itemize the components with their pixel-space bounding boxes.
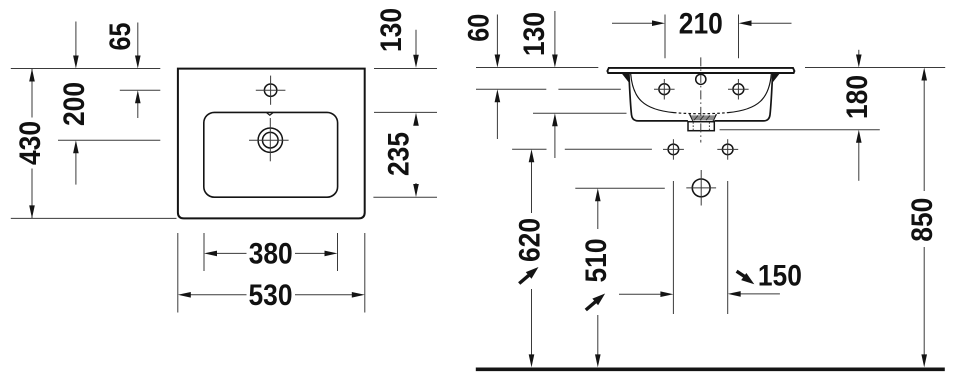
dimension 380 line and arrows xyxy=(217,252,247,254)
dimension 130 plan arrows xyxy=(415,30,417,56)
dimension 850 line xyxy=(923,80,925,191)
front view: right fixing hole crosshair xyxy=(717,148,738,150)
extension line: drain outlet level xyxy=(575,187,665,189)
extension line: rim left for 530 xyxy=(177,233,179,313)
extension line: left side hole vertical for 210 xyxy=(664,15,666,59)
dimension 180 line xyxy=(858,50,860,56)
svg-text:65: 65 xyxy=(104,23,137,51)
dimension 510 line xyxy=(597,201,599,229)
front view: drain flange hatch xyxy=(691,115,715,120)
front view: right side hole crosshair xyxy=(728,88,749,90)
front view: left side hole crosshair xyxy=(654,88,675,90)
plan view: washbasin outer rim rectangle xyxy=(178,69,365,219)
extension line: side holes level, left b xyxy=(558,88,620,90)
dimension 620 line xyxy=(531,162,533,213)
front view: basin interior curve left xyxy=(631,74,674,113)
svg-text:200: 200 xyxy=(58,82,91,126)
dimension 620 pointer arrow xyxy=(519,275,529,283)
dimension 60 arrows xyxy=(496,15,498,57)
front view: basin interior curve hidden middle (dashed) xyxy=(674,113,728,114)
front view: basin interior curve right xyxy=(728,74,771,113)
svg-text:530: 530 xyxy=(249,279,293,312)
extension line: tailpiece bottom level xyxy=(720,129,880,131)
extension line: fixing holes level b xyxy=(565,148,652,150)
extension line: right side hole vertical for 210 xyxy=(738,15,740,59)
plan view: drain outer circle xyxy=(258,128,282,152)
front view: vertical centreline (dash-dot) xyxy=(700,57,702,142)
dimension 430 line xyxy=(31,69,33,118)
plan view: inner basin rounded rectangle xyxy=(204,112,338,197)
extension line: rim right for 530 xyxy=(364,233,366,313)
front view: left fixing hole crosshair xyxy=(663,148,684,150)
dimension 430 bottom arrow xyxy=(29,205,35,218)
dimension 430 top arrow xyxy=(29,69,35,82)
svg-text:510: 510 xyxy=(580,239,613,283)
extension line: basin left for 380 xyxy=(203,233,205,271)
dimension 235 arrows xyxy=(413,113,419,126)
front view: rim slab xyxy=(607,68,794,73)
front view: right side hole circle xyxy=(733,84,744,95)
extension line: inner basin rear edge, right xyxy=(374,111,437,113)
extension line: fixing holes level a xyxy=(512,148,546,150)
dimension 530 line and arrows xyxy=(190,294,247,296)
svg-text:850: 850 xyxy=(906,198,939,242)
svg-text:210: 210 xyxy=(679,7,723,40)
extension line: side holes level, left a xyxy=(476,88,546,90)
svg-text:235: 235 xyxy=(383,132,416,176)
plan view: faucet hole crosshair xyxy=(256,89,286,91)
extension line: rim top, right of front view xyxy=(805,67,945,69)
extension line: right fixing hole vertical xyxy=(727,181,729,314)
extension line: inner basin front edge, right xyxy=(373,196,437,198)
extension line: rim top, left of front view xyxy=(476,67,598,69)
front view: tailpiece inner bore right (dotted) xyxy=(708,122,710,130)
dimension 65 arrows xyxy=(137,23,139,58)
svg-text:150: 150 xyxy=(758,260,802,293)
floor line xyxy=(476,367,945,371)
dimension 130 front arrows xyxy=(554,11,556,56)
extension line: basin right for 380 xyxy=(337,233,339,271)
svg-text:380: 380 xyxy=(249,238,293,271)
dimension 210 arrows xyxy=(612,22,653,24)
front view: drain outlet crosshair xyxy=(686,187,716,189)
front view: tailpiece inner bore left (dotted) xyxy=(692,122,694,130)
front view: left side hole circle xyxy=(659,84,670,95)
plan view: drain crosshair xyxy=(249,139,289,141)
front view: basin body outline xyxy=(629,74,773,121)
extension line: drain centre, left xyxy=(58,139,160,141)
front view: right mounting tab xyxy=(773,74,779,82)
svg-text:60: 60 xyxy=(463,14,496,42)
extension line: drain flange level xyxy=(533,112,627,114)
front view: left fixing hole circle xyxy=(668,144,679,155)
front view: drain flange xyxy=(690,114,717,121)
front view: faucet hole circle xyxy=(696,74,706,84)
dimension 510 pointer arrow xyxy=(586,302,596,310)
dimension 150 pointer arrow xyxy=(737,271,746,277)
front view: drain outlet circle xyxy=(692,179,710,197)
svg-text:620: 620 xyxy=(514,218,547,262)
dimension 200 arrows xyxy=(75,22,77,58)
front view: drain tailpiece xyxy=(688,122,714,131)
front view: right fixing hole circle xyxy=(722,144,733,155)
plan view: faucet hole circle xyxy=(264,84,276,96)
plan view: drain inner circle xyxy=(263,132,279,148)
plan view: overflow notch on inner rim xyxy=(267,113,273,116)
svg-text:130: 130 xyxy=(518,12,551,56)
extension line: plan top edge, right xyxy=(374,68,437,70)
front view: left mounting tab xyxy=(623,74,629,82)
extension line: faucet centre, left xyxy=(120,89,161,91)
svg-text:130: 130 xyxy=(375,8,408,52)
dimension 150 line and arrows xyxy=(619,293,661,295)
extension line: plan bottom edge, left xyxy=(11,217,177,219)
extension line: plan top edge, left xyxy=(11,68,161,70)
svg-text:430: 430 xyxy=(14,121,47,165)
extension line: left fixing hole vertical xyxy=(672,181,674,314)
svg-text:180: 180 xyxy=(841,75,874,119)
